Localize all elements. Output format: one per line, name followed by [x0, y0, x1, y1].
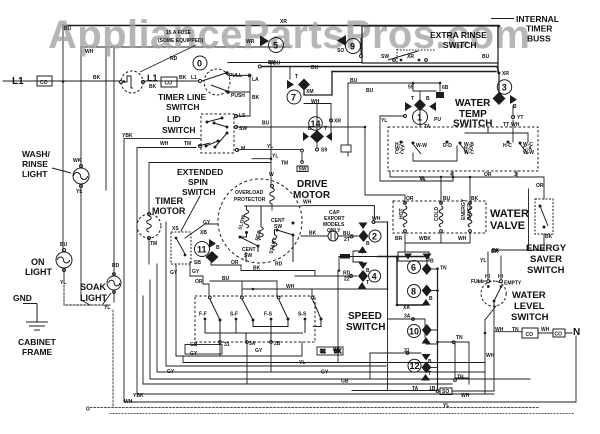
svg-text:11: 11	[197, 245, 207, 255]
circled 12	[408, 359, 421, 372]
svg-text:SWITCH: SWITCH	[166, 102, 200, 112]
svg-text:OR: OR	[536, 183, 544, 189]
wire bus segment to XR junction	[332, 71, 496, 73]
svg-text:BU: BU	[311, 65, 319, 71]
svg-text:0: 0	[197, 59, 202, 69]
svg-text:WATER: WATER	[512, 290, 546, 301]
water level switch	[477, 280, 506, 306]
motor internal bus	[244, 206, 302, 235]
svg-text:BU: BU	[482, 54, 490, 60]
wire 12 link	[431, 366, 438, 368]
svg-text:WATER: WATER	[455, 98, 491, 109]
svg-text:OR: OR	[195, 279, 203, 285]
svg-text:XA: XA	[403, 305, 410, 311]
wire speed to bottom	[220, 343, 271, 384]
svg-text:3: 3	[502, 83, 507, 93]
svg-text:PUSH: PUSH	[231, 93, 245, 99]
svg-text:T: T	[295, 74, 298, 80]
svg-text:WR: WR	[246, 39, 255, 45]
wire yl A to sw box	[243, 150, 302, 161]
svg-text:BU: BU	[64, 26, 72, 32]
wire circled1 stem	[419, 111, 421, 127]
svg-text:YL: YL	[443, 403, 449, 409]
svg-text:ENERGY: ENERGY	[526, 243, 567, 254]
connector box gb31	[185, 345, 222, 355]
svg-text:YL: YL	[299, 360, 305, 366]
connector triangle above 4	[359, 263, 368, 270]
wire on light bottom to soak chain	[63, 268, 65, 278]
extended spin switch box	[171, 232, 191, 264]
connector triangle up T	[358, 282, 367, 289]
svg-text:2B: 2B	[274, 341, 281, 347]
wire right edge bottom	[575, 336, 577, 402]
connector diamond 6	[422, 263, 432, 275]
wire yl long row	[183, 356, 485, 363]
svg-text:SAVER: SAVER	[467, 203, 473, 220]
svg-text:YL: YL	[272, 154, 278, 160]
svg-text:BK: BK	[545, 234, 553, 240]
svg-text:TN: TN	[456, 335, 463, 341]
svg-text:SW: SW	[299, 167, 307, 173]
svg-text:SWITCH: SWITCH	[511, 312, 549, 323]
svg-text:L1: L1	[147, 73, 158, 83]
svg-text:TN: TN	[512, 327, 519, 333]
svg-text:BK: BK	[252, 95, 260, 101]
svg-text:WH: WH	[541, 327, 550, 333]
svg-text:BK: BK	[492, 248, 500, 254]
svg-text:FRAME: FRAME	[22, 347, 53, 357]
svg-text:WH: WH	[486, 353, 495, 359]
svg-text:WH: WH	[458, 236, 467, 242]
svg-text:SWITCH: SWITCH	[346, 322, 385, 333]
on light	[56, 249, 72, 272]
svg-text:6: 6	[411, 263, 416, 273]
wire water temp feeds	[348, 83, 440, 99]
wire 59 box drop	[347, 83, 349, 156]
circled 8	[408, 285, 421, 298]
circled 4	[369, 270, 381, 282]
wire cent bus y256	[339, 257, 427, 264]
wire ta 1b row	[352, 390, 437, 392]
wire yl B	[252, 158, 271, 160]
wire circle7 stub	[304, 72, 332, 96]
svg-text:SPIN: SPIN	[188, 177, 208, 187]
svg-text:YBK: YBK	[133, 393, 144, 399]
wire top internal timer buss	[63, 25, 498, 27]
svg-text:F-S: F-S	[264, 312, 273, 318]
svg-text:SW: SW	[381, 54, 389, 60]
wire energy saver bottom	[495, 234, 544, 250]
svg-text:59: 59	[408, 85, 414, 91]
svg-text:31: 31	[224, 342, 230, 348]
svg-text:PU: PU	[434, 117, 441, 123]
internal timer buss label	[491, 18, 514, 20]
wire gy diagonal	[185, 224, 218, 238]
svg-text:CABINET: CABINET	[18, 337, 57, 347]
svg-text:SWITCH: SWITCH	[527, 265, 565, 276]
connector triangle 5	[260, 36, 269, 47]
svg-text:SB: SB	[194, 260, 201, 266]
svg-text:CO: CO	[40, 80, 48, 86]
svg-text:OR: OR	[231, 260, 239, 266]
extra rinse switch box	[362, 26, 498, 63]
svg-text:RD: RD	[170, 56, 178, 62]
svg-text:6B: 6B	[442, 85, 449, 91]
svg-text:EMPTY: EMPTY	[504, 281, 522, 287]
svg-text:RD: RD	[112, 263, 120, 269]
wire nested return y366	[166, 222, 386, 366]
svg-text:EXTRA RINSE: EXTRA RINSE	[430, 30, 487, 40]
svg-text:WH: WH	[372, 216, 381, 222]
wire bu drop x271	[270, 61, 272, 186]
svg-text:B: B	[308, 126, 312, 132]
svg-text:TM: TM	[281, 161, 288, 167]
svg-text:BU: BU	[350, 78, 358, 84]
svg-text:B: B	[426, 96, 430, 102]
svg-text:B: B	[366, 241, 370, 247]
wire 2T loop to 4	[366, 222, 388, 289]
connector triangle below 10	[422, 337, 431, 344]
svg-text:LS: LS	[239, 113, 246, 119]
wire bus pair lower	[262, 67, 500, 74]
svg-text:GB: GB	[341, 379, 349, 385]
svg-text:GY: GY	[203, 220, 211, 226]
wire overload to windings	[271, 204, 273, 210]
fuse	[119, 71, 144, 93]
wire 14 diamond feed	[316, 104, 318, 130]
svg-text:CO: CO	[555, 332, 563, 338]
svg-text:N: N	[573, 327, 580, 338]
wire timer motor top	[148, 163, 150, 215]
wire gy steps to speed box	[190, 262, 209, 296]
wire wh blade down	[485, 306, 496, 320]
wire tn right	[438, 342, 470, 384]
water valve box	[393, 201, 486, 233]
svg-text:WH: WH	[461, 393, 470, 399]
svg-text:RD: RD	[275, 262, 283, 268]
svg-text:XR: XR	[280, 19, 287, 25]
svg-text:T: T	[366, 280, 369, 286]
wire 6 link	[432, 268, 438, 270]
wire 8 link	[432, 290, 438, 292]
circled 10	[408, 325, 421, 338]
connector triangle 11	[209, 239, 216, 248]
wire wash rinse light down	[81, 185, 90, 305]
wire xa	[397, 304, 424, 306]
svg-text:BK: BK	[333, 347, 341, 353]
wire nested return y379	[150, 280, 530, 379]
svg-text:H-C: H-C	[503, 143, 512, 149]
svg-text:BR: BR	[395, 236, 403, 242]
svg-text:GY: GY	[170, 270, 178, 276]
svg-text:CO: CO	[165, 81, 173, 87]
connector CO2	[161, 77, 177, 87]
svg-text:BK: BK	[93, 75, 101, 81]
capacitor	[328, 231, 338, 241]
wire vertical x135 to bottom	[137, 148, 494, 395]
valve connector box	[398, 252, 429, 261]
connector triangle above 12	[422, 354, 431, 361]
wire lid SW right to water valve hot	[236, 127, 405, 203]
svg-text:CO: CO	[526, 332, 534, 338]
svg-text:W-C: W-C	[464, 150, 474, 156]
svg-text:BU: BU	[443, 196, 451, 202]
svg-text:8: 8	[411, 287, 416, 297]
svg-text:2T: 2T	[344, 237, 350, 243]
connector diamond 10	[422, 324, 432, 336]
svg-text:WASH/: WASH/	[22, 149, 51, 159]
connector box SO	[440, 388, 452, 395]
wire L1 input	[3, 80, 120, 82]
wire fuse to timer line switch	[143, 80, 199, 82]
circled 14	[309, 117, 323, 131]
wire YT into water temp box	[512, 120, 514, 142]
wire vertical x114 soak feed	[113, 47, 115, 276]
svg-text:5: 5	[273, 41, 278, 51]
wire bus pair upper	[228, 62, 362, 64]
wire 9 drop	[360, 38, 362, 54]
svg-text:SPEED: SPEED	[348, 311, 382, 322]
fuse label leader	[140, 45, 196, 72]
circled 2	[369, 230, 381, 242]
svg-text:B: B	[216, 245, 220, 251]
svg-text:TM: TM	[184, 141, 191, 147]
svg-text:TM: TM	[150, 241, 157, 247]
svg-text:BUSS: BUSS	[527, 34, 551, 44]
svg-text:S9: S9	[321, 148, 327, 154]
svg-text:SO: SO	[442, 389, 449, 395]
wire wh down right	[484, 320, 486, 394]
connector diamond 14	[310, 130, 324, 143]
svg-text:TIMER: TIMER	[526, 24, 552, 34]
svg-text:1: 1	[417, 113, 422, 123]
connector black box bk	[340, 254, 350, 259]
svg-text:1B: 1B	[429, 386, 436, 392]
circled 9	[346, 39, 361, 54]
svg-text:4: 4	[372, 272, 377, 282]
energy saver switch	[535, 199, 553, 234]
wire long vertical x387	[387, 222, 389, 290]
connector triangle above 6	[423, 254, 432, 261]
svg-text:BU: BU	[60, 242, 68, 248]
svg-text:GY: GY	[190, 351, 198, 357]
svg-text:TN: TN	[457, 375, 464, 381]
svg-text:RINSE: RINSE	[22, 159, 48, 169]
wire vertical x106	[105, 47, 107, 190]
wire bk x339 vertical	[338, 257, 340, 271]
wire soak light bottom	[113, 290, 115, 302]
water temp switch box	[388, 127, 538, 171]
svg-text:SW: SW	[239, 126, 247, 132]
svg-text:VALVE: VALVE	[490, 220, 525, 232]
svg-text:PULL: PULL	[229, 73, 242, 79]
connector triangle above 2	[359, 223, 368, 230]
connector diamond 3	[493, 92, 518, 105]
connector diamond 8	[422, 285, 432, 297]
connector triangle below 12	[421, 374, 430, 381]
svg-text:T: T	[324, 126, 327, 132]
svg-text:TA: TA	[412, 386, 419, 392]
circled 1	[413, 110, 428, 125]
wire vertical left BU	[62, 25, 64, 252]
svg-text:WH: WH	[303, 200, 312, 206]
circled 11	[195, 242, 210, 257]
svg-text:OVERLOAD: OVERLOAD	[235, 190, 264, 196]
svg-text:LIGHT: LIGHT	[80, 293, 107, 303]
connector triangle below 8	[422, 299, 431, 306]
wire lid M right	[237, 149, 243, 151]
wire wh step	[243, 289, 366, 296]
connector T triangle near 7	[287, 80, 294, 89]
svg-text:SOAK: SOAK	[80, 282, 107, 292]
svg-text:BK: BK	[309, 231, 317, 237]
wire br branch left	[528, 189, 530, 250]
connector CO1	[37, 76, 52, 86]
connector diamond 2	[359, 230, 369, 242]
svg-text:SWITCH: SWITCH	[182, 187, 216, 197]
connector triangles 14	[303, 132, 332, 141]
svg-text:EXTENDED: EXTENDED	[177, 167, 223, 177]
wire WH motor to loop	[302, 206, 374, 219]
svg-text:ON: ON	[31, 257, 45, 267]
svg-text:YL: YL	[104, 305, 110, 311]
circled 5	[269, 38, 284, 53]
svg-text:TIMER LINE: TIMER LINE	[158, 92, 206, 102]
wire nested return y372	[157, 264, 485, 372]
motor windings	[240, 210, 293, 262]
wire circle column vertical	[437, 268, 439, 390]
wire bk down x338	[337, 271, 339, 363]
svg-text:W-W: W-W	[523, 150, 534, 156]
svg-text:BU: BU	[262, 121, 270, 127]
svg-text:OR: OR	[406, 196, 414, 202]
svg-text:WH: WH	[160, 141, 169, 147]
circled 0	[193, 56, 207, 70]
svg-text:BK: BK	[149, 84, 157, 90]
wire valve bottoms	[405, 233, 470, 243]
connector diamond 12	[421, 361, 431, 373]
svg-text:YBK: YBK	[122, 133, 133, 139]
svg-text:4: 4	[450, 172, 453, 178]
svg-text:L1: L1	[12, 76, 24, 87]
wire bu step	[210, 281, 277, 296]
svg-text:WH: WH	[495, 327, 504, 333]
svg-text:W-W: W-W	[416, 143, 427, 149]
svg-text:F-F: F-F	[199, 312, 207, 318]
svg-text:GY: GY	[321, 370, 329, 376]
svg-text:OR: OR	[484, 172, 492, 178]
svg-text:GB: GB	[190, 342, 198, 348]
svg-text:YL: YL	[76, 189, 82, 195]
svg-text:TN: TN	[440, 266, 447, 272]
wire thick step down	[397, 257, 424, 306]
svg-text:(SOME EQUIPPED): (SOME EQUIPPED)	[158, 38, 204, 44]
wire xr vertical right	[498, 63, 499, 92]
wire cent bus thick	[378, 256, 427, 258]
wire timer motor bottom	[148, 238, 150, 264]
svg-text:YL: YL	[381, 118, 387, 124]
circled 6	[408, 261, 421, 274]
connector diamond 11	[206, 251, 219, 263]
circled 7	[287, 90, 301, 104]
svg-text:B: B	[429, 296, 433, 302]
wire br lower	[398, 243, 405, 252]
svg-text:WH: WH	[85, 49, 94, 55]
wire lid LS up	[236, 75, 250, 116]
svg-text:FULL: FULL	[471, 279, 484, 285]
svg-text:B: B	[513, 104, 517, 110]
svg-text:WH: WH	[311, 99, 320, 105]
svg-text:D-D: D-D	[443, 143, 452, 149]
connector triangle up B	[358, 246, 367, 253]
wire WH down to 14	[304, 104, 331, 133]
svg-text:HOT: HOT	[399, 208, 405, 219]
lid switch box	[198, 114, 239, 153]
svg-text:BK: BK	[253, 266, 261, 272]
svg-text:YL: YL	[267, 144, 273, 150]
svg-text:TIMER: TIMER	[155, 196, 183, 206]
svg-text:BU: BU	[366, 88, 374, 94]
svg-text:12: 12	[410, 361, 420, 371]
svg-text:BU: BU	[222, 276, 230, 282]
wire n segs	[538, 332, 572, 334]
svg-text:2: 2	[372, 232, 377, 242]
wire nested return y384	[143, 296, 452, 384]
svg-text:MOTOR: MOTOR	[293, 190, 331, 201]
svg-text:HI: HI	[485, 274, 491, 280]
svg-text:LEVEL: LEVEL	[514, 301, 545, 312]
svg-text:GY: GY	[192, 269, 200, 275]
svg-text:YL: YL	[60, 280, 66, 286]
wire 31 to 12	[370, 353, 421, 379]
svg-text:WK: WK	[73, 158, 82, 164]
svg-text:T: T	[411, 96, 414, 102]
wire vertical x124 to bottom	[124, 139, 576, 402]
svg-text:10: 10	[409, 327, 419, 337]
soak light	[107, 273, 121, 294]
svg-text:3: 3	[514, 172, 517, 178]
wire WH TM to lid switch	[138, 147, 196, 149]
connector diamond 7	[298, 79, 310, 91]
svg-text:SW: SW	[274, 224, 282, 230]
svg-text:S-F: S-F	[230, 312, 238, 318]
speed switch box	[195, 296, 321, 343]
svg-text:C-C: C-C	[395, 150, 404, 156]
svg-text:BK: BK	[179, 75, 187, 81]
wire water temp internals	[413, 127, 528, 161]
svg-text:T: T	[428, 371, 431, 377]
wire WH top horizontal	[81, 46, 290, 48]
svg-text:SO: SO	[337, 48, 344, 54]
svg-text:INTERNAL: INTERNAL	[516, 14, 559, 24]
svg-text:9: 9	[350, 42, 355, 52]
wire or to energy saver	[517, 177, 544, 199]
wire 2 to 4 step	[353, 251, 363, 262]
svg-text:GND: GND	[13, 293, 32, 303]
wire 3 to YT	[512, 106, 514, 116]
wire 10 link	[426, 330, 438, 344]
wire nested return y356	[176, 264, 302, 356]
connector box 32bk	[317, 347, 343, 355]
svg-text:WH: WH	[124, 399, 133, 405]
connector diamond 4	[358, 270, 368, 282]
wire dotted outer row2	[110, 413, 575, 415]
svg-text:MOTOR: MOTOR	[152, 206, 186, 216]
svg-text:W: W	[269, 172, 274, 178]
svg-text:15 A FUSE: 15 A FUSE	[166, 30, 192, 36]
svg-text:SW: SW	[244, 253, 252, 259]
svg-text:14: 14	[311, 119, 321, 129]
